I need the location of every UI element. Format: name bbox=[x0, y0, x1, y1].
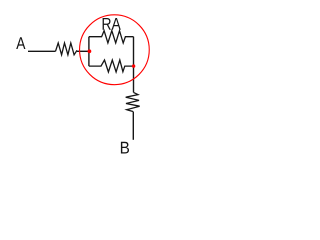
resistor (vertical) bbox=[126, 92, 140, 111]
label RA bbox=[103, 18, 111, 30]
junction dot (right) bbox=[132, 64, 135, 67]
wire bbox=[132, 112, 134, 140]
resistor RA top (parallel) bbox=[89, 31, 134, 43]
node B bbox=[121, 142, 129, 154]
wire (left bus of parallel pair) bbox=[88, 37, 90, 66]
wire bbox=[28, 50, 56, 52]
wire (right bus down to vertical resistor) bbox=[133, 37, 135, 93]
wire bbox=[77, 50, 89, 52]
highlight circle (red) bbox=[80, 15, 150, 85]
resistor RA bottom (parallel) bbox=[89, 60, 134, 72]
resistor (series, horizontal) bbox=[56, 43, 78, 55]
node A bbox=[16, 37, 25, 49]
junction dot (left) bbox=[88, 49, 92, 53]
